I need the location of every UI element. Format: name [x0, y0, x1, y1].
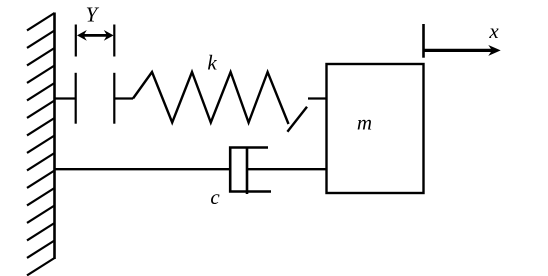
dimension double arrow [82, 34, 109, 37]
reference line above mass [422, 24, 425, 58]
svg-text:k: k [207, 51, 217, 75]
mass block [327, 64, 424, 193]
svg-text:Y: Y [86, 3, 100, 27]
x arrowhead [488, 45, 500, 56]
svg-text:c: c [210, 185, 220, 209]
damper piston [246, 147, 249, 195]
rod wall to left bar [55, 97, 77, 99]
svg-text:x: x [488, 19, 499, 43]
base bar left [75, 73, 77, 124]
spring end stroke [287, 107, 307, 132]
x arrow shaft [424, 49, 493, 52]
dimension tick left [75, 25, 77, 57]
rod spring to mass [308, 97, 327, 99]
spring k [133, 72, 289, 124]
svg-text:m: m [357, 111, 372, 135]
damper rod from wall [55, 168, 231, 170]
base bar right [113, 73, 115, 124]
dimension tick right [113, 25, 115, 57]
damper cylinder [230, 148, 271, 192]
wall hatching [27, 13, 55, 275]
rod right bar to spring [114, 97, 133, 99]
wall vertical line [53, 13, 56, 260]
damper piston rod to mass [247, 168, 327, 170]
